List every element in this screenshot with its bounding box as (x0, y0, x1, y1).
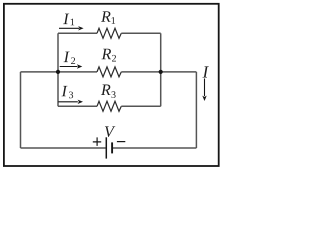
minus sign battery polarity (117, 141, 125, 143)
junction dot right node (159, 70, 163, 74)
wire: right outer rail (195, 72, 197, 148)
wire: left outer rail (20, 72, 22, 148)
current arrow I (total, downward) (202, 79, 206, 102)
wire: branch 2 middle, right segment (121, 71, 196, 73)
wire: branch 1 top, left segment (58, 32, 97, 34)
wire: bottom right of battery (113, 147, 196, 149)
resistor R3 (97, 101, 121, 111)
label R2 (102, 49, 117, 62)
label R3 (101, 85, 116, 98)
label I1 (63, 14, 74, 26)
current arrow I3 (58, 100, 83, 104)
battery V negative short plate (111, 142, 113, 153)
current arrow I2 (60, 64, 83, 68)
wire: branch 3 bottom, right segment (121, 105, 160, 107)
wire: branch 3 bottom, left segment (58, 105, 97, 107)
label I total current (203, 66, 209, 77)
label R1 (101, 11, 115, 23)
border frame (decorative) (4, 4, 219, 166)
plus sign battery polarity (93, 137, 101, 146)
wire: bottom left of battery (21, 147, 106, 149)
wire: left inner rail (57, 33, 59, 106)
label V battery voltage (105, 126, 115, 137)
label I3 (61, 86, 73, 98)
resistor R2 (97, 67, 121, 77)
wire: right inner rail (160, 33, 162, 106)
wire: branch 2 middle, left segment (21, 71, 98, 73)
junction dot left node (56, 70, 60, 74)
battery V positive long plate (105, 137, 107, 158)
resistor R1 (97, 28, 121, 38)
label I2 (64, 52, 76, 64)
wire: branch 1 top, right segment (121, 32, 160, 34)
current arrow I1 (59, 26, 84, 30)
